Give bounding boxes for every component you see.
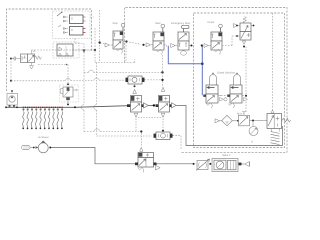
silencer left bbox=[22, 145, 31, 149]
wire dashed v x162.5 bbox=[162, 55, 164, 87]
wire dashed v x11 bbox=[10, 59, 12, 81]
arrow shuttle1 down bbox=[133, 89, 137, 93]
wire dashed v x246 bbox=[245, 47, 247, 114]
wire valve C to flow control bbox=[157, 163, 194, 165]
Guard valve G2 bbox=[227, 73, 247, 108]
wire blue emergency stop bbox=[168, 46, 202, 64]
wire dashed counter to x95 bbox=[73, 49, 95, 51]
wire dashed exhaust link y117.5 bbox=[138, 117, 161, 119]
wire dashed guard link bbox=[221, 95, 227, 97]
flow control bottom bbox=[193, 159, 212, 171]
manifold red dots black dots and tubes bbox=[22, 108, 62, 128]
wire dashed H y136 bbox=[97, 135, 153, 137]
wire dashed reset to S5 bbox=[222, 36, 238, 46]
frame inner dashed box bbox=[194, 13, 285, 148]
wire dashed shuttle2 right bbox=[173, 136, 182, 150]
shuttle valve 1 bbox=[126, 76, 145, 84]
Guard valve G1 bbox=[203, 73, 227, 108]
valve A bbox=[127, 96, 155, 132]
wire dashed v x272.5 pilot bbox=[272, 13, 274, 110]
blow line bbox=[215, 112, 245, 126]
frame outer dashed box bbox=[125, 8, 288, 153]
wire dashed H y72.4 bbox=[84, 71, 162, 73]
Stop valve bbox=[105, 22, 128, 54]
wire dashed blocks to counter bbox=[74, 39, 76, 45]
wire dashed H y80 bbox=[11, 79, 126, 82]
wire dashed stop out down bbox=[125, 42, 127, 63]
node valve C pilot y131.5 bbox=[140, 130, 142, 132]
arrow into valve B pilot bbox=[161, 87, 164, 91]
wire valve B out bbox=[176, 105, 282, 145]
wire dashed stop out right bbox=[127, 42, 142, 45]
Start valve bbox=[142, 22, 166, 55]
wire dashed H y62.5 bbox=[95, 59, 135, 63]
shuttle valve 2 bbox=[154, 130, 173, 140]
wire dashed stop left stub bbox=[100, 43, 106, 45]
manifold line bbox=[6, 106, 76, 108]
wire dashed shuttle1 right bbox=[145, 79, 163, 81]
node x162.5 y79.9 bbox=[161, 79, 163, 81]
wire dashed v x95 bbox=[94, 28, 96, 63]
compressor bbox=[7, 90, 18, 107]
block B1 bbox=[57, 12, 86, 24]
arrow on v x84 bbox=[83, 49, 86, 53]
svg-text:Valve 2: Valve 2 bbox=[222, 154, 231, 157]
frame valve D dashed box bbox=[60, 85, 79, 102]
regulator bbox=[239, 112, 268, 126]
Reset valve bbox=[204, 21, 222, 55]
wire dashed V0 out y50 bbox=[32, 49, 96, 51]
wire dashed v x99.5 bbox=[99, 10, 101, 63]
hop arc y72.4 bbox=[89, 70, 94, 72]
Emergency Stop valve bbox=[171, 22, 193, 55]
wire dashed H y131.5 bbox=[84, 131, 141, 133]
svg-text:Emergency Stop: Emergency Stop bbox=[171, 22, 191, 25]
svg-text:Stop: Stop bbox=[113, 22, 119, 25]
wire dashed v x96.5 bbox=[96, 63, 98, 137]
air blower bbox=[30, 136, 51, 153]
frame blocks dashed box bbox=[53, 11, 91, 39]
valve D bbox=[38, 64, 78, 106]
valve B bbox=[156, 96, 177, 131]
svg-text:Air Blower: Air Blower bbox=[38, 136, 49, 139]
counter box bbox=[57, 44, 73, 56]
node x162.5 y72.4 bbox=[161, 71, 163, 73]
node shuttle1 bottom bbox=[134, 85, 136, 87]
svg-text:Blow 1: Blow 1 bbox=[237, 112, 245, 115]
valve C bbox=[135, 133, 160, 172]
hop arcs y80 bbox=[65, 78, 99, 81]
svg-text:Reset: Reset bbox=[208, 21, 215, 24]
solenoid valve S6 right bbox=[267, 110, 291, 145]
svg-text:Start: Start bbox=[155, 22, 161, 25]
pilot valve S5 top right bbox=[234, 17, 255, 48]
wire blower to valve C bbox=[51, 148, 136, 164]
block B2 bbox=[58, 25, 86, 35]
main line to valve A bbox=[75, 106, 128, 108]
gauge bbox=[249, 121, 258, 144]
frame counter dashed box bbox=[53, 42, 79, 58]
svg-text:Guard Switches: Guard Switches bbox=[217, 72, 236, 75]
valve 2 assembly bbox=[212, 154, 250, 171]
frame left dashed box bbox=[7, 9, 92, 91]
valve V0 solenoid top-left bbox=[10, 50, 41, 69]
wire dashed v x84 bbox=[75, 44, 84, 132]
